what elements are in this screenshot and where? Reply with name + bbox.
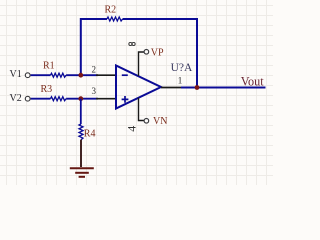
svg-text:3: 3 <box>92 86 97 96</box>
svg-text:4: 4 <box>125 126 139 132</box>
terminal VN <box>144 119 149 124</box>
ground <box>70 168 94 177</box>
resistor R2 <box>107 17 123 21</box>
svg-text:R1: R1 <box>43 61 55 72</box>
terminal VP <box>144 50 149 55</box>
pin number 8 (rotated) <box>129 42 135 45</box>
pin 3 <box>96 98 116 100</box>
pin 1 output <box>161 87 181 89</box>
svg-text:R2: R2 <box>105 5 117 16</box>
svg-text:VN: VN <box>153 116 167 127</box>
junction node output <box>195 85 200 90</box>
svg-text:V1: V1 <box>10 69 22 80</box>
svg-text:R4: R4 <box>84 129 96 140</box>
wire R4 to ground <box>80 140 82 167</box>
svg-text:1: 1 <box>178 76 183 86</box>
svg-text:V2: V2 <box>10 93 22 104</box>
svg-text:2: 2 <box>92 65 97 75</box>
junction node inverting input <box>78 73 83 78</box>
wire node down to R4 <box>80 99 82 124</box>
wire V2 to R3 <box>31 98 51 100</box>
pin 8 <box>139 52 145 76</box>
svg-text:R3: R3 <box>41 84 53 95</box>
wire V1 to R1 <box>31 74 51 76</box>
pin 2 <box>96 74 116 76</box>
op-amp minus sign <box>122 74 128 76</box>
svg-text:Vout: Vout <box>241 74 264 88</box>
pin 4 <box>139 98 145 121</box>
svg-text:U?A: U?A <box>171 62 193 74</box>
wire R1 to node <box>66 74 98 76</box>
wire output <box>181 87 266 89</box>
op-amp plus sign <box>122 96 129 103</box>
op-amp U?A <box>116 66 161 109</box>
junction node noninverting input <box>78 96 83 101</box>
wire R3 to node <box>66 98 98 100</box>
svg-text:VP: VP <box>151 47 164 58</box>
wire top right across and down to output node <box>123 19 197 88</box>
wire top feedback from left junction up and across <box>81 19 107 75</box>
resistor R4 <box>79 124 83 140</box>
resistor R3 <box>51 97 67 101</box>
resistor R1 <box>51 73 67 77</box>
